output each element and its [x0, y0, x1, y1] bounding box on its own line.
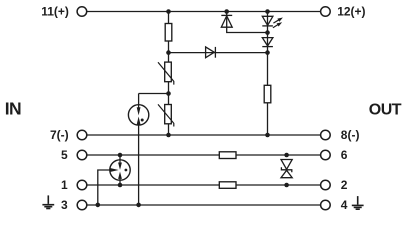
wire middle vertical branch x=168.5: [168, 12, 170, 136]
svg-text:4: 4: [341, 198, 348, 212]
wire top bus 11 to 12: [87, 11, 321, 13]
terminal 2: [321, 180, 331, 190]
LED D3: [262, 16, 273, 26]
junction node top LED: [265, 9, 270, 14]
svg-text:7(-): 7(-): [50, 128, 69, 142]
terminal 4: [321, 200, 331, 210]
terminal 6: [321, 150, 331, 160]
junction node line3 GDT F1: [136, 203, 141, 208]
svg-text:12(+): 12(+): [337, 4, 365, 18]
resistor R4: [219, 182, 236, 189]
ground symbol right (terminal 4): [352, 196, 364, 209]
junction node D2-LED link: [265, 30, 270, 35]
svg-text:8(-): 8(-): [341, 128, 360, 142]
resistor R3: [219, 152, 236, 159]
junction node line1 GDT F2: [118, 183, 123, 188]
gas discharge tube F1: [128, 105, 148, 125]
junction node line7 middle: [166, 133, 171, 138]
svg-text:3: 3: [61, 198, 68, 212]
svg-text:5: 5: [61, 148, 68, 162]
junction node top D2: [224, 9, 229, 14]
svg-text:1: 1: [61, 178, 68, 192]
wire vertical through GDT F2: [119, 155, 121, 185]
varistor RV1: [158, 62, 174, 85]
wire branch at y=52.6 to diode D1: [169, 52, 268, 54]
wire line 1 to 2: [87, 184, 320, 186]
gas discharge tube F2 (3-electrode): [110, 160, 130, 180]
wire D2 anode L-link to LED junction: [227, 12, 268, 33]
terminal 12(+): [321, 7, 331, 17]
wire line 3 to 4: [87, 204, 320, 206]
svg-text:11(+): 11(+): [41, 4, 69, 18]
wire vertical through GDT F1 down to line 3: [138, 94, 140, 205]
wire line 7(-) to 8(-): [87, 134, 320, 136]
resistor R2: [264, 85, 271, 103]
ground symbol left (terminal 3): [42, 195, 54, 208]
junction node line5 GDT F2: [118, 153, 123, 158]
junction node line3 left: [96, 203, 101, 208]
LED D3 light arrows: [273, 18, 283, 28]
wire GDT F2 left electrode to line 3: [98, 170, 120, 205]
resistor R1: [165, 24, 172, 42]
svg-text:2: 2: [341, 178, 348, 192]
junction node top-middle: [166, 9, 171, 14]
svg-text:OUT: OUT: [369, 102, 402, 119]
wire line 5 to 6: [87, 154, 320, 156]
terminal 7(-): [77, 130, 87, 140]
wire right vertical branch x=267.5: [267, 12, 269, 136]
terminal 8(-): [321, 130, 331, 140]
svg-text:6: 6: [341, 148, 348, 162]
junction node line8 right: [265, 133, 270, 138]
terminal 1: [77, 180, 87, 190]
terminal 5: [77, 150, 87, 160]
TVS diode D5 (bidirectional suppressor): [281, 160, 292, 178]
junction node middle y52 right: [265, 50, 270, 55]
terminal 3: [77, 200, 87, 210]
diode D1: [206, 47, 216, 58]
terminal 11(+): [77, 7, 87, 17]
diode D2: [221, 15, 232, 27]
varistor RV2: [158, 104, 174, 126]
junction node varistor tap: [166, 91, 171, 96]
junction node line1 TVS: [284, 183, 289, 188]
junction node middle y52 left: [166, 50, 171, 55]
wire branch junction to GDT F1: [139, 93, 169, 95]
diode D4: [262, 38, 273, 47]
junction node line5 TVS: [284, 153, 289, 158]
svg-text:IN: IN: [5, 99, 21, 119]
